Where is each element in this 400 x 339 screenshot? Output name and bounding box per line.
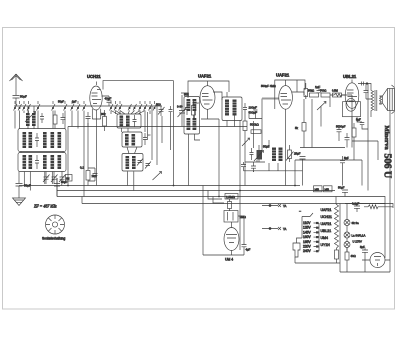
- capacitor C13: [250, 148, 254, 160]
- AF coupling coil a: [272, 148, 276, 162]
- switch contact S7: [64, 104, 68, 111]
- svg-text:0.5M: 0.5M: [332, 89, 338, 93]
- svg-text:U 275V: U 275V: [353, 240, 362, 244]
- capacitor C5 50pF: [16, 184, 32, 197]
- svg-text:5000pF: 5000pF: [336, 125, 346, 129]
- resistor R14 ballast: [335, 248, 339, 263]
- switch contact S5: [37, 104, 41, 111]
- capacitor C22 50uF: [338, 186, 348, 197]
- wire lamp column: [345, 204, 385, 253]
- oscillator switch contact S13: [119, 104, 123, 111]
- svg-text:50pF: 50pF: [61, 180, 68, 184]
- wire: [28, 106, 34, 129]
- svg-text:5μF: 5μF: [344, 156, 349, 160]
- wire bus risers: [15, 101, 155, 104]
- rectifier tube UY1N: [362, 253, 390, 268]
- svg-text:~: ~: [299, 210, 301, 214]
- svg-text:220V: 220V: [303, 245, 312, 249]
- electrolytic C17 25uF: [294, 152, 306, 164]
- wire IFT2: [227, 92, 240, 130]
- switch contact S3: [23, 104, 27, 111]
- wire detector area: [240, 130, 286, 250]
- wire grid-cap top: [103, 81, 174, 90]
- trimmer capacitor CT3: [59, 172, 66, 185]
- coil L11: [51, 155, 55, 169]
- pickup terminal 2: [262, 227, 287, 231]
- svg-text:UY1N: UY1N: [321, 243, 331, 247]
- svg-text:160V: 160V: [303, 235, 312, 239]
- antenna: [10, 74, 23, 90]
- padder capacitor CP2: [169, 106, 173, 116]
- svg-text:La 8V/0,1A: La 8V/0,1A: [352, 234, 366, 238]
- resistor R8 0.5M: [332, 89, 342, 98]
- tube socket diagram: [46, 215, 65, 234]
- svg-text:500pF: 500pF: [249, 111, 258, 115]
- resistor R19 0.5M box: [251, 130, 261, 134]
- capacitor C20 50pF: [54, 178, 68, 197]
- capacitor C6: [86, 112, 91, 123]
- wire cathode line tube1: [87, 123, 89, 186]
- wire right mid: [295, 95, 378, 186]
- svg-text:Minerva: Minerva: [383, 126, 390, 151]
- oscillator switch contact S15: [144, 104, 148, 111]
- IF transformer T1 box: [184, 97, 200, 135]
- wire tube2 plate: [213, 92, 222, 197]
- pickup terminal 1: [262, 204, 287, 208]
- switch contact S10: [83, 104, 87, 111]
- osc coil L15: [125, 134, 129, 146]
- osc coil L14: [126, 116, 130, 127]
- coil L9: [29, 155, 33, 169]
- switch contact S18: [128, 104, 132, 111]
- capacitor C8: [133, 115, 137, 127]
- grid resistor zigzag: [331, 94, 345, 97]
- svg-text:Sockelschaltung: Sockelschaltung: [42, 237, 65, 241]
- switch contact S2: [18, 104, 22, 111]
- wire output verticals: [352, 84, 390, 197]
- svg-text:40Ω: 40Ω: [351, 254, 356, 258]
- oscillator coil box 3: [122, 154, 143, 172]
- resistor R3 500k: [243, 114, 260, 136]
- trimmer capacitor CT1: [43, 172, 50, 185]
- AVC bus wire: [68, 127, 247, 186]
- resistor R16: [345, 248, 356, 264]
- volume potentiometer P1: [242, 136, 250, 147]
- svg-text:TA: TA: [283, 227, 287, 231]
- capacitor C10: [185, 103, 189, 115]
- svg-text:UAF21: UAF21: [198, 74, 212, 79]
- capacitor C29 5uF: [356, 118, 368, 130]
- dial lamp 1: [344, 220, 359, 226]
- oscillator coil box 1: [117, 114, 141, 128]
- IFT2 coil a: [225, 100, 229, 116]
- resistor R1 30k: [101, 110, 107, 131]
- capacitor C12 500pF: [249, 110, 258, 117]
- resistor R10: [352, 123, 356, 141]
- switch contact S4: [27, 104, 31, 111]
- svg-text:UAF21: UAF21: [321, 208, 332, 212]
- ground: [13, 196, 26, 206]
- capacitor C18 5uF: [340, 156, 349, 167]
- svg-text:UCH21: UCH21: [87, 74, 101, 79]
- capacitor C26: [241, 162, 246, 170]
- aerial coil L2: [32, 113, 36, 126]
- tube UCH21: [90, 82, 102, 120]
- svg-text:240V: 240V: [303, 249, 312, 253]
- svg-text:25μF: 25μF: [294, 152, 301, 156]
- resistor R7 700: [320, 89, 330, 98]
- capacitor C30: [364, 84, 372, 100]
- wire left verticals to bus: [21, 152, 63, 197]
- coil L6: [51, 132, 55, 148]
- svg-text:UCH21: UCH21: [321, 215, 333, 219]
- oscillator switch contact S17: [153, 104, 157, 111]
- svg-text:MB: MB: [325, 188, 330, 192]
- svg-text:UAF21: UAF21: [321, 222, 332, 226]
- resistor R20: [53, 111, 57, 129]
- switch contact S8: [71, 104, 75, 111]
- wire power bottom: [295, 172, 393, 272]
- capacitor C-ant 50pF: [13, 90, 28, 106]
- svg-text:UBL21: UBL21: [321, 229, 332, 233]
- tube UAF21 (IF amp) shield loop: [188, 81, 229, 98]
- svg-text:Sk 6a: Sk 6a: [352, 221, 360, 225]
- svg-text:50pF: 50pF: [58, 100, 64, 104]
- tube UAF21 (AF amp) shield loop: [275, 80, 305, 109]
- svg-text:506 U: 506 U: [382, 154, 393, 179]
- wire band-switch bus: [14, 105, 162, 107]
- oscillator switch contact S14: [139, 104, 143, 111]
- heater chain labels: [321, 208, 333, 247]
- dial lamp 2: [344, 232, 365, 238]
- iron-core adjuster box GEZ: [66, 175, 73, 182]
- svg-text:500kΩ: 500kΩ: [250, 123, 260, 127]
- svg-text:700Ω: 700Ω: [320, 89, 326, 93]
- svg-text:50μF: 50μF: [338, 186, 345, 190]
- tuning eye tube UM4: [224, 222, 239, 255]
- top coupling capacitor C19: [358, 82, 370, 86]
- svg-text:50kΩ: 50kΩ: [308, 89, 314, 93]
- resistor R6 50k: [308, 89, 319, 98]
- dial lamp 3: [344, 240, 362, 248]
- svg-text:1μF: 1μF: [315, 85, 320, 89]
- tuning capacitor CV1: [177, 95, 187, 127]
- shielded grid wire: [262, 98, 279, 100]
- band filter box 2: [18, 153, 66, 172]
- mains plug: [293, 238, 302, 257]
- svg-text:1MΩ: 1MΩ: [240, 215, 247, 219]
- trimmer capacitor CT2: [51, 172, 58, 185]
- band filter box 1: [18, 129, 66, 152]
- capacitor C16: [345, 133, 350, 144]
- switch contact S6: [52, 104, 56, 111]
- IFT1 coil d: [193, 118, 197, 130]
- trimmer capacitor CT4: [137, 159, 143, 166]
- resistor R11 1.5M box: [225, 194, 238, 200]
- svg-text:UAF21: UAF21: [276, 73, 290, 78]
- wire: [18, 172, 20, 184]
- capacitor C28: [61, 113, 66, 124]
- IFT1 coil c: [187, 118, 191, 130]
- svg-text:125V: 125V: [303, 226, 312, 230]
- trimmer capacitor CT5: [145, 162, 151, 169]
- aerial coil L1: [26, 113, 30, 126]
- svg-text:ZF = 487 kHz: ZF = 487 kHz: [34, 204, 57, 209]
- resistor R2 cathode: [192, 101, 200, 119]
- svg-text:50pF: 50pF: [20, 95, 27, 99]
- capacitor C3: [35, 133, 39, 147]
- wire osc verticals: [122, 81, 174, 191]
- resistor R15 zigzag: [364, 205, 382, 209]
- wire bus B: [57, 190, 335, 192]
- wire bus D: [82, 197, 393, 209]
- wire switch drops: [15, 111, 150, 197]
- wire osc funnel diagonals: [111, 111, 145, 115]
- capacitor C4: [35, 155, 39, 169]
- oscillator trimmer arrow: [153, 172, 162, 181]
- wire IFT1: [181, 93, 200, 186]
- osc coil L18: [132, 156, 136, 169]
- svg-text:MB: MB: [315, 188, 320, 192]
- loudspeaker: [380, 85, 395, 114]
- wire tube1 down: [88, 117, 97, 186]
- wire detector verticals: [244, 99, 303, 173]
- magic eye coupling box: [224, 211, 238, 223]
- capacitor C23 0.1uF: [352, 202, 360, 213]
- resistor R12 2M: [228, 199, 232, 211]
- svg-text:145V: 145V: [303, 230, 312, 234]
- resistor R9 5k: [295, 99, 306, 148]
- IFT1 coil a: [187, 99, 191, 111]
- svg-text:4μF: 4μF: [246, 248, 251, 252]
- coil L7: [58, 132, 62, 148]
- svg-text:1,5MΩ: 1,5MΩ: [226, 195, 236, 199]
- oscillator switch contact S11: [110, 104, 114, 111]
- tube UAF21 (AF amp): [279, 86, 293, 131]
- fuse box MB2: [324, 186, 333, 192]
- tube UAF21 (IF amp): [200, 86, 219, 119]
- svg-text:TA: TA: [283, 204, 287, 208]
- switch contact S1: [14, 104, 18, 111]
- osc coil L13: [120, 116, 124, 127]
- capacitor C15 5000pF: [336, 125, 346, 137]
- svg-text:195V: 195V: [303, 240, 312, 244]
- svg-text:500pF 4MΩ: 500pF 4MΩ: [261, 84, 276, 88]
- svg-text:5μF: 5μF: [360, 245, 365, 249]
- svg-text:UM 4: UM 4: [225, 258, 233, 262]
- shield box UBL21: [343, 102, 361, 117]
- padder capacitor CP1: [156, 103, 165, 117]
- svg-text:40pF: 40pF: [105, 97, 112, 101]
- svg-text:30k: 30k: [101, 112, 106, 116]
- oscillator switch contact S12: [114, 104, 118, 111]
- switch contact S19: [133, 104, 137, 111]
- coil L5: [43, 132, 47, 148]
- svg-text:100pF: 100pF: [249, 106, 258, 110]
- resistor R18 grid tube3: [286, 145, 294, 162]
- resistor R5 vertical: [304, 83, 308, 99]
- wire plate tube3: [292, 80, 352, 99]
- magic eye feed wires: [203, 186, 224, 256]
- osc coil L16: [132, 134, 136, 146]
- output transformer T3: [370, 84, 382, 118]
- coil L8: [23, 155, 27, 169]
- tone switch: [317, 102, 326, 113]
- coil L3: [23, 132, 27, 148]
- potentiometer P2: [254, 145, 270, 163]
- coil L10: [43, 155, 47, 169]
- coil L12: [58, 155, 62, 169]
- svg-text:UBL21: UBL21: [343, 74, 357, 79]
- wire bus C: [57, 197, 385, 204]
- IFT1 coil b: [193, 99, 197, 111]
- capacitor C2: [40, 113, 44, 123]
- capacitor C25: [80, 166, 98, 182]
- capacitor C27: [251, 162, 256, 172]
- oscillator coil box 2: [122, 132, 142, 147]
- fuse box MB1: [314, 186, 323, 192]
- tube UBL21: [345, 80, 359, 112]
- heater chain zigzag: [335, 197, 339, 249]
- resistor R17 1k: [86, 171, 97, 181]
- capacitor C11 100pF: [243, 103, 257, 114]
- svg-text:UM4: UM4: [321, 236, 328, 240]
- capacitor C21: [242, 240, 251, 252]
- capacitor C7 40pF: [102, 96, 112, 106]
- capacitor C14 1uF: [315, 85, 322, 93]
- wire eye bottom: [203, 216, 244, 255]
- svg-text:500: 500: [156, 103, 161, 107]
- svg-text:110V: 110V: [303, 221, 311, 225]
- node joints: [67, 185, 296, 198]
- IFT2 coil b: [233, 100, 237, 116]
- voltage selector ladder: [302, 213, 319, 253]
- switch contact S9: [77, 104, 81, 111]
- capacitor C9: [143, 133, 151, 145]
- AF coupling coil b: [279, 148, 283, 162]
- wire bus A: [19, 185, 300, 187]
- svg-text:2pF: 2pF: [72, 100, 77, 104]
- aerial trimmer arrow: [25, 112, 36, 123]
- coil L4: [29, 132, 33, 148]
- IF transformer T2 box: [222, 97, 242, 121]
- oscillator switch contact S16: [149, 104, 153, 111]
- osc coil L17: [126, 156, 130, 169]
- capacitor C24 5uF: [360, 245, 368, 256]
